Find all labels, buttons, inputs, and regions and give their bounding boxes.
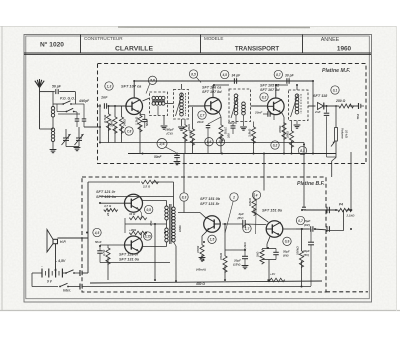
capacitor 5uF bbox=[296, 228, 310, 230]
terminal battery plus bbox=[79, 270, 81, 276]
resistor 100k BF bbox=[299, 250, 303, 268]
inner border frame bbox=[26, 36, 370, 299]
wire top right down bbox=[312, 81, 314, 154]
wire det cap link bbox=[327, 156, 337, 158]
capacitor 50nF bus bbox=[174, 154, 180, 156]
resistor T4 emitter bbox=[129, 216, 147, 220]
IFT3 arrow bbox=[231, 95, 238, 118]
wire speaker feed bbox=[88, 181, 140, 183]
capacitor T1 emitter bbox=[142, 118, 147, 120]
wire IFT2 to T2 bbox=[189, 105, 205, 107]
resistor R1 bias bbox=[106, 113, 110, 131]
wire IFT3 bottom bbox=[235, 115, 237, 124]
resistor R2 bias bbox=[113, 116, 117, 134]
wire volume top bbox=[335, 106, 337, 128]
wire speaker bbox=[58, 237, 89, 239]
wire IFT4 top bbox=[296, 85, 298, 90]
wire T6 collector bbox=[200, 213, 206, 218]
circled ref 4 bbox=[252, 191, 260, 199]
ground coil bbox=[52, 142, 54, 150]
transistor T3 bbox=[268, 98, 285, 115]
junction dots bbox=[133, 80, 135, 82]
circled ref 8,1 bbox=[298, 146, 306, 154]
wire P4 branch bbox=[343, 210, 345, 231]
wire MF input bbox=[98, 105, 102, 107]
wire volume down bbox=[335, 141, 337, 158]
transistor T4 bbox=[125, 194, 143, 212]
capacitor 56pF bbox=[55, 89, 57, 94]
header divider 2 bbox=[200, 35, 202, 54]
BF bottom bus bbox=[90, 281, 322, 283]
header divider 1 bbox=[80, 35, 82, 54]
wire bases top bbox=[100, 196, 174, 198]
wire secondary bottom bbox=[174, 242, 177, 246]
IFT4 dashed box bbox=[289, 90, 309, 121]
node input vertical bbox=[99, 104, 101, 106]
capacitor 50nF MF2 bbox=[231, 125, 236, 127]
IFT1 secondary winding bbox=[152, 102, 155, 105]
IFT3 secondary winding bbox=[242, 102, 246, 106]
capacitor 34pF bbox=[233, 78, 235, 84]
resistor 4,7 base bbox=[104, 208, 119, 211]
page right edge bbox=[396, 26, 398, 311]
ground IFT2 bbox=[178, 126, 185, 128]
wire IFT4 bottom bbox=[296, 121, 298, 125]
switch PO/GO 2 bbox=[66, 111, 68, 113]
wire volume feed down bbox=[263, 154, 265, 191]
wire bases bottom bbox=[100, 262, 170, 264]
wire T1 collector up bbox=[133, 81, 135, 98]
IFT4 arrow bbox=[291, 95, 298, 117]
potentiometer wiper arrow bbox=[331, 142, 335, 147]
wire battery left bbox=[32, 272, 36, 274]
wire BF feed bbox=[183, 154, 185, 193]
IFT2 dashed box bbox=[174, 90, 189, 120]
resistor T3 emitter bbox=[282, 122, 286, 140]
resistor 3,9k bbox=[251, 126, 255, 144]
resistor AGC bbox=[289, 130, 293, 148]
wire tuning gnd bbox=[66, 146, 79, 148]
IFT1 core bbox=[152, 100, 165, 102]
IFT2 arrow bbox=[176, 94, 183, 117]
circled ref 8,3 bbox=[180, 193, 188, 201]
IFT2 winding bbox=[180, 93, 184, 97]
circled ref 4,5 top bbox=[221, 70, 229, 78]
page top edge bbox=[0, 26, 397, 28]
capacitor T2 emitter bbox=[206, 125, 211, 127]
wire T5 collector bbox=[140, 247, 142, 252]
wire cap to T1 base bbox=[108, 105, 126, 107]
wire T6 emitter bbox=[202, 230, 208, 236]
IFT3 dashed box bbox=[229, 89, 251, 122]
wire P4 bbox=[304, 209, 336, 211]
wire IFT4 to diode bbox=[308, 105, 316, 107]
circled ref 8,6 bbox=[148, 76, 156, 84]
IFT4 winding bbox=[295, 94, 299, 98]
terminal battery minus bbox=[79, 284, 81, 290]
wire T4 collector bbox=[139, 196, 142, 200]
header bottom rule bbox=[24, 52, 371, 54]
wire center tap bbox=[166, 220, 168, 228]
resistor T1 emitter bbox=[138, 115, 142, 133]
diode D1 SFT118 bbox=[318, 103, 324, 110]
resistor 6,8k bbox=[252, 198, 256, 216]
trimmer cap 2 bbox=[82, 118, 87, 120]
resistor stage2 base bbox=[192, 107, 194, 128]
wire AGC line bbox=[100, 142, 304, 144]
transistor T5 bbox=[125, 236, 143, 254]
potentiometer volume bbox=[335, 128, 338, 142]
wire IFT3 to T3 base bbox=[251, 105, 268, 107]
trimmer cap 1 bbox=[75, 118, 80, 120]
header divider 3 bbox=[302, 35, 304, 54]
wire T4 base bbox=[100, 202, 125, 204]
ground tuning bbox=[74, 147, 81, 149]
wire T7 base right bbox=[283, 228, 296, 230]
wire antenna down bbox=[39, 87, 41, 129]
wire IFT1 out bbox=[165, 103, 173, 105]
connector AF out bbox=[358, 103, 360, 109]
connector BF input bbox=[302, 206, 306, 208]
antenna bbox=[35, 79, 44, 88]
ground IFT1 bbox=[161, 125, 168, 127]
circled ref 0,1 bbox=[331, 86, 339, 94]
circled ref 0,7 bbox=[296, 216, 304, 224]
circled ref 0,6 bbox=[205, 138, 213, 146]
wire T7 to driver base bbox=[222, 223, 243, 225]
wire T1 to IFT1 bbox=[143, 98, 150, 101]
capacitor 20uF electro bbox=[225, 249, 245, 251]
switch S2 inter bbox=[59, 286, 61, 288]
wire T3 emitter bbox=[282, 113, 284, 117]
ground IFT4 bbox=[294, 124, 301, 126]
Platine BF dashed box bbox=[82, 177, 326, 292]
transistor T6 bbox=[204, 216, 221, 233]
resistor below IFT2 bbox=[183, 124, 187, 142]
wire speaker rail bbox=[87, 182, 89, 273]
T7 emitter RC pair bbox=[262, 248, 276, 250]
BF box bottom extension bbox=[326, 291, 368, 293]
capacitor 20nF bbox=[267, 111, 269, 117]
circled ref 0,5 bbox=[145, 205, 153, 213]
capacitor 2uF coupling bbox=[242, 220, 244, 228]
output transformer primary upper bbox=[165, 206, 168, 209]
transistor T7 bbox=[266, 221, 283, 238]
wire speaker return bbox=[55, 244, 57, 270]
wire neutralization top bbox=[134, 80, 313, 82]
wire switch left bbox=[53, 103, 63, 105]
outer border frame bbox=[24, 35, 372, 303]
resistor T5 emitter bbox=[129, 231, 147, 235]
resistor 47k bias bbox=[224, 224, 226, 255]
switch PO/GO 1 bbox=[62, 103, 64, 105]
circled ref 1,3 bbox=[105, 82, 113, 90]
resistor R3 bias bbox=[119, 116, 123, 134]
switch block bottom bbox=[58, 113, 80, 115]
capacitor 30pF bbox=[286, 78, 288, 84]
wire T5 base bbox=[100, 244, 125, 246]
coil L2 ferrite bbox=[51, 128, 54, 131]
wire AF right vertical bbox=[350, 152, 352, 210]
wire tuner out bbox=[84, 126, 100, 128]
output transformer primary lower bbox=[165, 228, 168, 231]
IFT3 primary winding bbox=[234, 94, 238, 98]
transistor T2 bbox=[205, 98, 222, 115]
capacitor bias pushpull bbox=[97, 250, 103, 252]
wire IFT2 bottom bbox=[181, 119, 183, 126]
resistor 250ohm bbox=[338, 104, 354, 108]
wire cap to switch bbox=[59, 91, 75, 93]
terminal bars P4 bbox=[326, 207, 328, 213]
transistor T1 bbox=[126, 98, 143, 115]
circled ref 1,5 bbox=[208, 235, 216, 243]
speaker HP bbox=[53, 239, 58, 243]
Platine MF dashed box bbox=[98, 64, 367, 164]
capacitor detector 2nF bbox=[326, 106, 328, 113]
IFT1 primary winding bbox=[152, 96, 155, 99]
resistor T2 emitter bbox=[219, 124, 223, 142]
wire battery right bbox=[62, 272, 66, 274]
circled ref 2,6 bbox=[157, 139, 167, 149]
wire bf left bottom bbox=[82, 286, 311, 288]
tuning capacitor CV2 bbox=[76, 137, 82, 139]
resistor bias pushpull bbox=[106, 247, 110, 265]
wire tap down bbox=[154, 224, 156, 280]
circled ref 0,9 bbox=[283, 237, 291, 245]
circled ref 8,2 bbox=[260, 93, 268, 101]
MF bus wire bbox=[128, 153, 336, 155]
coil L1 ferrite bbox=[51, 107, 54, 110]
wire T2 emitter bbox=[219, 113, 221, 117]
battery 9V bbox=[41, 269, 43, 278]
IFT1 ground lead bbox=[157, 106, 159, 116]
switch S1 bbox=[65, 272, 67, 274]
circled ref 2 bbox=[230, 193, 238, 201]
wire T7 collector bbox=[254, 212, 268, 222]
page bottom edge bbox=[0, 310, 400, 312]
terminal bars P5 bbox=[326, 226, 328, 232]
circled ref 0,2 bbox=[271, 141, 279, 149]
circled ref 7,8 bbox=[125, 127, 133, 135]
wire diode out bbox=[324, 105, 338, 107]
wire AGC down bbox=[303, 143, 305, 208]
circled ref 0,15 bbox=[144, 232, 152, 240]
circled ref 8,5 bbox=[189, 70, 197, 78]
capacitor 1nF input bbox=[103, 103, 105, 109]
circled ref 1,2 bbox=[216, 138, 224, 146]
wire antenna to cap bbox=[40, 91, 55, 93]
ground IFT3 bbox=[240, 126, 247, 128]
resistor 450 bus bbox=[267, 278, 285, 282]
wire IFT2 top bbox=[181, 84, 183, 90]
page left edge bbox=[1, 26, 3, 311]
tuning capacitor CV1 bbox=[63, 137, 69, 139]
IFT4 core bbox=[300, 94, 302, 114]
circled ref 1,7 bbox=[243, 224, 251, 232]
IFT2 core bbox=[185, 93, 187, 116]
wire T1 emitter bbox=[139, 113, 141, 115]
circled ref 2,7 bbox=[198, 111, 206, 119]
circled ref 4,5 BF bbox=[93, 228, 101, 236]
wire 250 out bbox=[349, 105, 358, 107]
wire T3 collector bbox=[275, 85, 277, 98]
IFT1 dashed box bbox=[150, 92, 168, 116]
wire L1-L2 bbox=[52, 117, 54, 128]
circled ref 8,7 top bbox=[274, 70, 282, 78]
wire T2 collector bbox=[212, 85, 214, 98]
wire T7 emitter bbox=[267, 236, 270, 244]
resistor T6 emitter bbox=[200, 244, 204, 262]
output transformer secondary bbox=[172, 207, 175, 210]
capacitor 30uF BF bbox=[310, 229, 312, 242]
scan grain overlay bbox=[0, 0, 1, 1]
output transformer core bbox=[169, 204, 171, 244]
wire secondary drop bbox=[173, 182, 175, 207]
wire trimmer top bbox=[71, 103, 84, 105]
